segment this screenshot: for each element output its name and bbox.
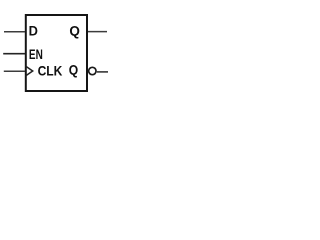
wire CLK input bbox=[4, 70, 25, 72]
svg-text:Q: Q bbox=[69, 63, 78, 78]
svg-text:D: D bbox=[29, 23, 39, 38]
flip-flop body U1 bbox=[26, 15, 87, 91]
wire Q output bbox=[88, 31, 107, 33]
svg-text:Q: Q bbox=[69, 23, 80, 38]
svg-text:CLK: CLK bbox=[38, 63, 63, 78]
wire EN input bbox=[3, 53, 25, 55]
clock edge triangle bbox=[26, 66, 33, 76]
wire D input bbox=[4, 31, 25, 33]
svg-text:EN: EN bbox=[29, 47, 43, 62]
inversion bubble on Q-bar output bbox=[89, 67, 96, 74]
wire Q-bar output bbox=[97, 71, 108, 73]
